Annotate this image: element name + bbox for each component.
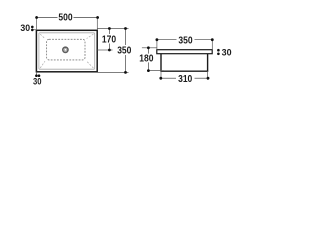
svg-text:170: 170 [102,34,116,46]
svg-text:350: 350 [117,45,131,57]
dim 500: line left segment [36,17,57,19]
dim 350 top: dot right [211,38,214,41]
outer rect (sink outline) [36,30,97,72]
dim 180: dot bottom [147,69,150,72]
dim 310: ext right [207,71,209,80]
drain inner hole [64,49,66,51]
dim 310: dot right [207,77,210,80]
corner diagonal top-right [87,34,94,39]
rim bar [157,50,212,54]
drain outer circle [63,47,68,52]
dim 500: extension line right [96,16,98,30]
dim 350 top: dot left [156,38,159,41]
svg-text:180: 180 [139,53,153,65]
dim 30 right: dot upper [217,49,220,52]
dim 500: dot right [96,16,99,19]
dim 30 bottom-left: dot left [35,74,38,77]
dim 500: extension line left [35,16,37,30]
dim 310: ext left [160,71,162,80]
basin body [161,54,208,71]
corner diagonal top-left [40,34,45,39]
dim 180: dot top [147,46,150,49]
dim 350 left: dot top [124,27,127,30]
dim 30 top-left: dot upper [31,26,34,29]
svg-text:30: 30 [33,76,42,87]
dim 180: label background [140,54,154,63]
right extension line bottom [97,71,128,73]
dim 500: line right segment [74,17,98,19]
dim 350 left: line upper segment [125,29,127,46]
right extension line drain center [97,49,112,51]
right extension line top [97,28,128,30]
dim 310: dot left [159,77,162,80]
corner diagonal bottom-right [87,61,94,68]
corner diagonal bottom-left [40,61,45,68]
dim 500: dot left [35,16,38,19]
dim 180: line [147,48,149,71]
dim 30 right: dot lower [217,53,220,56]
dim 30 bottom-left: dot right [38,74,41,77]
dim 180: ext bottom [147,70,164,72]
dim 180: ext top [142,47,157,49]
dim 170: line lower segment [108,44,110,51]
dim 30 top-left: dot lower [31,29,34,32]
dim 170: line upper segment [108,29,110,35]
dim 350 left: dot bottom [124,71,127,74]
basin dashed rect [47,39,85,60]
dim 350 top: ext left [156,40,158,50]
dim 170: dot top [108,27,111,30]
svg-text:30: 30 [222,47,232,57]
svg-text:310: 310 [178,73,192,85]
dim 350 left: line lower segment [125,55,127,72]
svg-text:500: 500 [58,12,72,24]
dim 310: line left segment [161,77,176,79]
dim 30 bottom-left: tick left [35,72,37,77]
rim inner line [39,33,95,69]
svg-text:30: 30 [20,23,30,33]
svg-text:350: 350 [178,35,192,47]
dim 350 top: line right segment [195,39,213,41]
dim 310: line right segment [195,77,209,79]
dim 350 top: line left segment [157,39,177,41]
dim 30 top-left: tick [33,29,36,31]
dim 350 top: ext right [211,40,213,50]
dim 170: dot bottom [108,49,111,52]
